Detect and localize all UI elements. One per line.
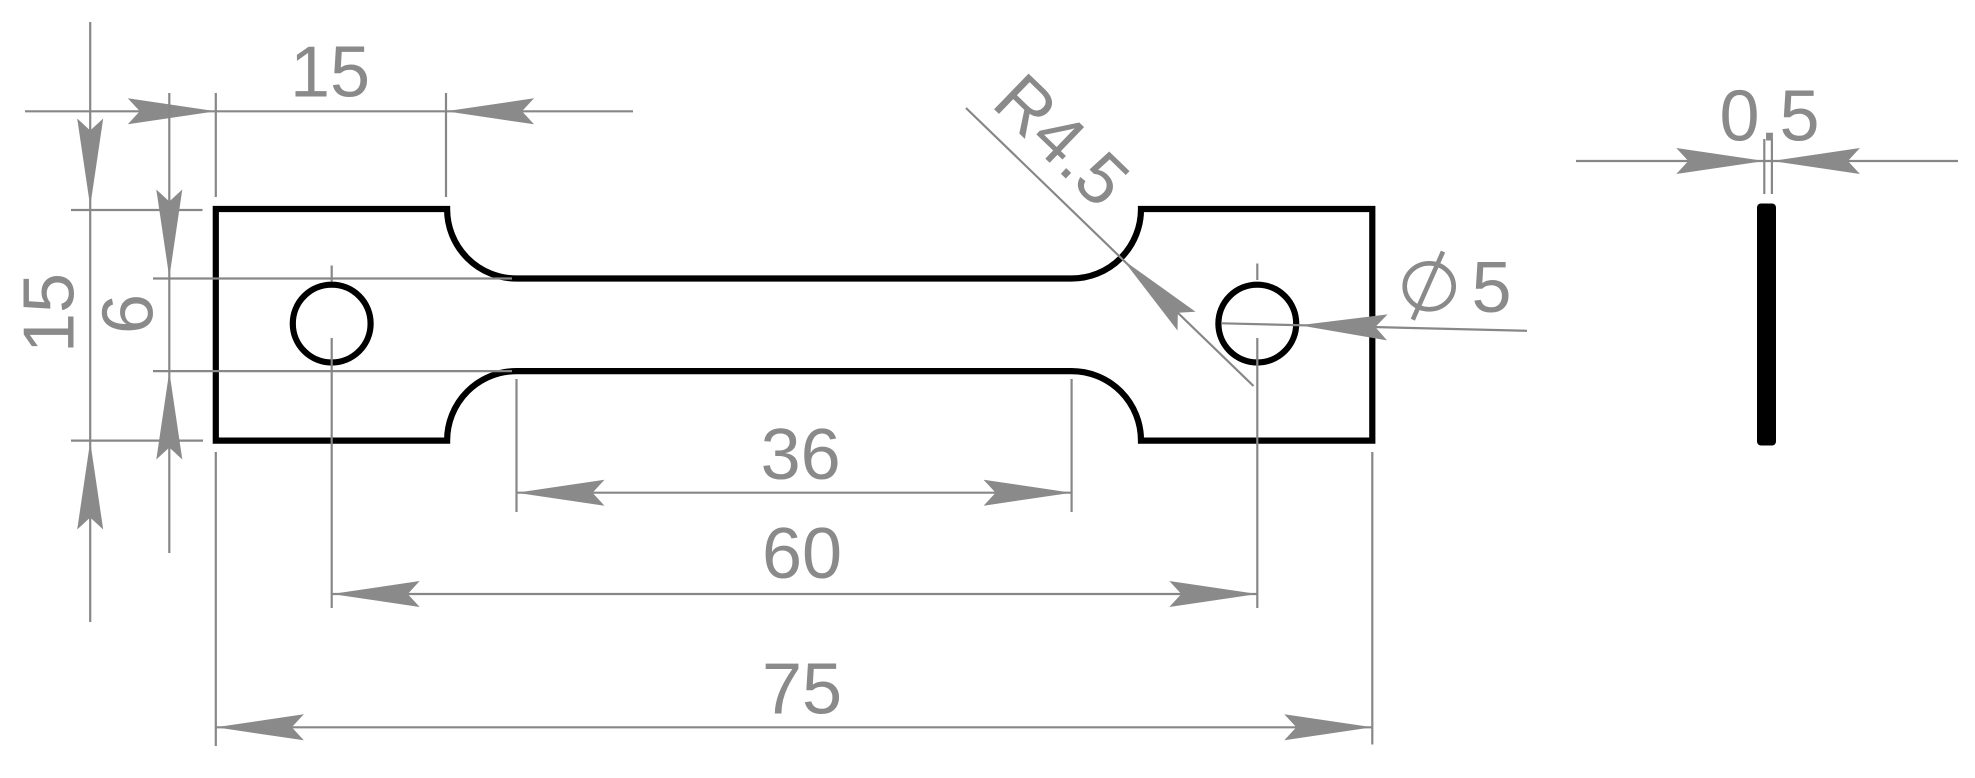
svg-text:0.5: 0.5 [1719,77,1819,157]
side view plate (0.5 thick) [1757,204,1776,446]
svg-text:15: 15 [290,33,370,113]
dimension 60 (hole spacing) [332,264,1258,609]
svg-text:5: 5 [1471,248,1511,328]
diameter symbol [1405,252,1454,320]
dimension 15 (left, overall height) [71,22,203,622]
dimension 75 (overall length) [216,452,1373,746]
svg-text:6: 6 [89,294,169,334]
svg-text:75: 75 [762,650,842,730]
dimension 36 (narrow section length) [517,379,1072,512]
dimension R4.5 (fillet radius leader) [966,108,1254,386]
svg-text:36: 36 [761,415,841,495]
dimension 0.5 (thickness) [1576,139,1958,194]
svg-text:60: 60 [762,514,842,594]
part outline (dog-bone specimen front view) [216,209,1373,441]
dimension diameter 5 (hole leader) [1222,323,1527,331]
svg-text:15: 15 [10,273,90,353]
dimension 15 (top, grip width) [25,93,633,197]
dimension 6 (narrow section height) [153,93,512,553]
hole left [293,285,371,363]
hole right [1218,285,1296,363]
